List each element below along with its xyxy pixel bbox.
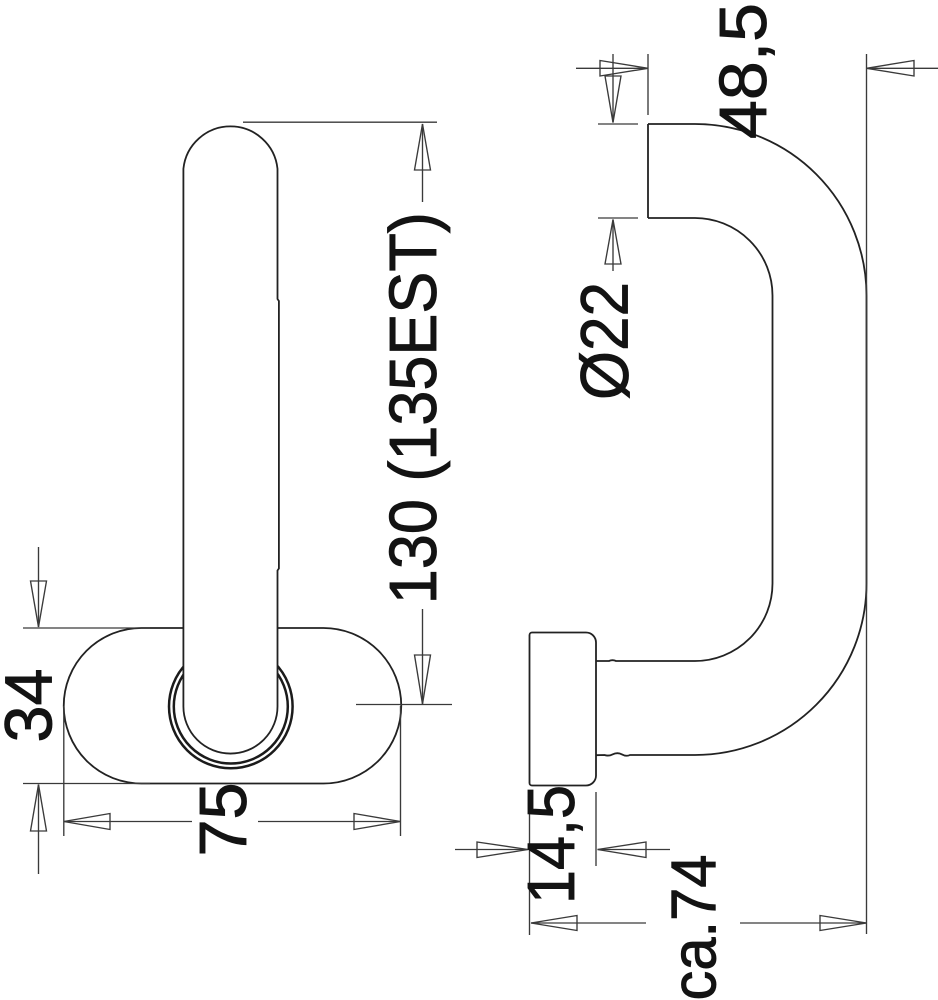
dim 75 line right part (258, 821, 401, 823)
dim 75 right extension line (400, 706, 402, 836)
dim diam22 top extension line (598, 123, 638, 125)
dim 14,5 left extension line (529, 794, 531, 935)
collar ring outer circle (169, 645, 293, 769)
svg-text:48,5: 48,5 (706, 3, 781, 139)
dim 34 bottom arrow (38, 785, 40, 875)
svg-text:14,5: 14,5 (514, 785, 589, 904)
dim 14,5 right extension line (595, 792, 597, 866)
dim 48,5 left arrow (576, 67, 648, 69)
collar ring inner circle (174, 650, 288, 764)
dim ca.74 line left part (531, 922, 646, 924)
dim 14,5 left arrow (455, 849, 528, 851)
dim diam22 top arrow (612, 54, 614, 123)
dim 75 line left part (64, 821, 192, 823)
grip bar (front view) (183, 126, 279, 753)
dim 130 bottom arrow (422, 609, 424, 704)
dim 75 right arrowhead (354, 814, 401, 830)
dim diam22 bottom arrow (612, 220, 614, 272)
dim 75 left extension line (63, 706, 65, 836)
handle tube outer contour (side view) (596, 124, 867, 756)
dim ca.74 right arrowhead (820, 916, 867, 931)
dim 48,5 left extension line (647, 54, 649, 115)
tube free end edge (side view) (647, 124, 649, 218)
mounting plate (side view) (530, 633, 597, 786)
dim diam22 bottom extension line (598, 217, 638, 219)
dim 34 top arrow (38, 547, 40, 627)
oval rosette (front view) (64, 628, 402, 784)
dim 130 top extension line (243, 121, 437, 123)
svg-text:ca.74: ca.74 (660, 855, 730, 1000)
dim 14,5 right arrow (598, 849, 671, 851)
dim 130 bottom reference line (356, 704, 452, 706)
dim 130 top arrow (422, 124, 424, 202)
dim 34 top extension line (23, 627, 150, 629)
dim ca.74 left arrowhead (531, 916, 577, 931)
dim 34 bottom extension line (23, 783, 150, 785)
svg-text:34: 34 (0, 669, 67, 743)
svg-text:Ø22: Ø22 (567, 282, 643, 400)
svg-text:75: 75 (186, 783, 261, 857)
dim 48,5 right arrow (867, 67, 938, 69)
svg-text:130 (135EST): 130 (135EST) (376, 212, 451, 604)
dim 48,5 / ca.74 right extension line (866, 54, 868, 934)
handle tube inner contour (side view) (596, 218, 773, 661)
dim 75 left arrowhead (64, 814, 110, 830)
dim ca.74 line right part (740, 922, 867, 924)
